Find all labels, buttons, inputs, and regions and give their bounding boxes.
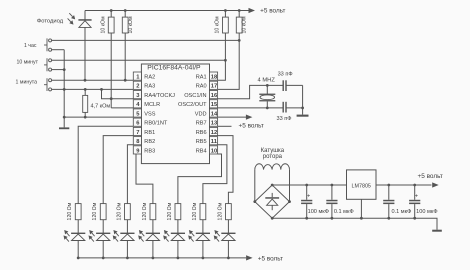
capacitor C4 0.1 мкФ: [331, 185, 333, 200]
LED HL7: [227, 220, 229, 233]
wire: DC- rail to ground: [272, 218, 437, 230]
svg-text:MCLR: MCLR: [144, 102, 160, 108]
wire: SB1 top contact to R4 junction: [52, 39, 240, 41]
ground (left): [63, 117, 65, 127]
svg-text:10 кОм: 10 кОм: [100, 16, 106, 34]
svg-text:4,7 кОм: 4,7 кОм: [91, 104, 111, 110]
wire: pin 14 VDD to +5: [218, 116, 246, 118]
svg-text:RA3: RA3: [144, 84, 155, 90]
svg-text:+5 вольт: +5 вольт: [239, 122, 264, 129]
LED HL6: [202, 220, 204, 233]
wire: pin 10 RB4 to LED column 5: [178, 154, 222, 204]
pin 3 RA4/TOCKJ: [133, 91, 141, 99]
svg-text:RB0/1NT: RB0/1NT: [144, 121, 168, 127]
wire: coil left lead to bridge: [254, 170, 256, 202]
resistor R12 120 Ом: [226, 204, 232, 220]
pin 1 RA2: [133, 72, 141, 80]
power +5 вольт (VDD arrow): [246, 115, 253, 120]
svg-text:RA0: RA0: [196, 84, 207, 90]
svg-text:RB4: RB4: [196, 148, 207, 154]
pin 4 MCLR: [133, 100, 141, 108]
capacitor C3 100 мкФ: [306, 185, 308, 200]
svg-text:RB6: RB6: [196, 130, 207, 136]
wire: LM7805 ground lead: [360, 199, 362, 218]
svg-text:RB3: RB3: [144, 148, 155, 154]
svg-text:15: 15: [211, 102, 218, 108]
pin 14 VDD: [210, 109, 218, 117]
resistor R7 120 Ом: [100, 204, 106, 220]
bridge rectifier VD2: [255, 185, 290, 218]
wire: SB2 bottom contact stub: [52, 69, 65, 71]
resistor R2 10 кОм: [124, 11, 126, 18]
wire: R5 bottom to VSS line: [84, 112, 86, 117]
wire: pin 7 RB1 to LED column 2: [103, 136, 133, 204]
wire: R1 bottom to RA4/MCLR net: [110, 33, 112, 108]
pin 15 OSC2/OUT: [210, 100, 218, 108]
svg-text:RB7: RB7: [196, 121, 207, 127]
svg-text:100 мкФ: 100 мкФ: [308, 209, 329, 215]
svg-text:VSS: VSS: [144, 111, 155, 117]
svg-text:18: 18: [211, 75, 218, 81]
resistor R9 120 Ом: [150, 204, 156, 220]
svg-text:RA2: RA2: [144, 75, 155, 81]
svg-text:12: 12: [211, 130, 217, 136]
diode inside bridge: [271, 193, 273, 197]
resistor R1 10 кОм: [110, 11, 112, 18]
svg-text:+5 вольт: +5 вольт: [418, 173, 443, 180]
svg-text:120 Ом: 120 Ом: [92, 202, 98, 220]
wire: pin 15 OSC2 bottom line: [218, 107, 284, 109]
wire: LED HL6 to +5 rail: [202, 241, 204, 258]
LED HL2: [102, 220, 104, 233]
svg-text:+5 вольт: +5 вольт: [260, 8, 285, 15]
pin 11 RB5: [210, 137, 218, 145]
svg-text:RB1: RB1: [144, 130, 155, 136]
wire: pin 9 RB3 to LED column 4: [136, 154, 153, 204]
svg-text:0.1 мкФ: 0.1 мкФ: [334, 209, 354, 215]
svg-text:33 пФ: 33 пФ: [278, 72, 293, 78]
wire: SB3 top contact to pin 1 RA2 line: [52, 79, 134, 81]
pin 9 RB3: [133, 146, 141, 154]
wire: LED HL3 to +5 rail: [126, 241, 128, 258]
wire: R3 bottom to pin 18: [218, 33, 226, 80]
wire: +5V top rail: [85, 10, 249, 12]
svg-text:0.1 мкФ: 0.1 мкФ: [391, 209, 411, 215]
capacitor C5 0.1 мкФ: [388, 185, 390, 200]
wire: pin 16 OSC1 to crystal top line: [218, 85, 284, 98]
wire: R4 bottom to pin 17: [218, 33, 240, 89]
pin 17 RA0: [210, 81, 218, 89]
pin 7 RB1: [133, 127, 141, 135]
svg-text:14: 14: [211, 111, 218, 117]
svg-text:7: 7: [136, 130, 139, 136]
LED HL3: [126, 220, 128, 233]
wire: LED HL5 to +5 rail: [177, 241, 179, 258]
resistor R5 4,7 кОм: [84, 89, 86, 95]
capacitor C6 100 мкФ: [414, 185, 416, 200]
resistor R3 10 кОм: [224, 11, 226, 18]
svg-text:2: 2: [136, 84, 139, 90]
wire: switch common vertical to ground: [63, 50, 65, 117]
pin 13 RB7: [210, 118, 218, 126]
svg-text:10: 10: [211, 148, 217, 154]
svg-text:100 мкФ: 100 мкФ: [416, 209, 437, 215]
wire: branch to pin 4 MCLR: [110, 97, 113, 100]
LED HL1: [77, 220, 79, 233]
resistor R8 120 Ом: [125, 204, 131, 220]
svg-text:120 Ом: 120 Ом: [192, 202, 198, 220]
svg-text:11: 11: [211, 139, 218, 145]
power +5 вольт (bottom arrow): [246, 255, 253, 260]
wire: +5V LED bottom rail: [78, 257, 246, 259]
svg-text:LM7805: LM7805: [351, 183, 370, 189]
pin 8 RB2: [133, 137, 141, 145]
wire: LED HL2 to +5 rail: [102, 241, 104, 258]
svg-text:OSC2/OUT: OSC2/OUT: [178, 102, 207, 108]
resistor R4 10 кОм: [238, 11, 240, 18]
voltage regulator U2 LM7805: [347, 170, 377, 199]
wire: SB3 bottom contact to pin 2 line: [52, 88, 134, 90]
svg-text:120 Ом: 120 Ом: [67, 202, 73, 220]
resistor R11 120 Ом: [200, 204, 206, 220]
svg-text:17: 17: [211, 84, 217, 90]
photodiode VD1 Фотодиод: [84, 11, 86, 20]
svg-text:RA1: RA1: [196, 75, 207, 81]
wire: pin 8 RB2 to LED column 3: [127, 145, 133, 204]
svg-text:120 Ом: 120 Ом: [142, 202, 148, 220]
svg-text:120 Ом: 120 Ом: [217, 202, 223, 220]
power +5 вольт (top right arrow): [249, 8, 256, 13]
pin 5 VSS: [133, 109, 141, 117]
svg-text:10 минут: 10 минут: [16, 60, 38, 66]
wire: pin 6 RB0 to LED column 1: [78, 126, 133, 203]
wire: SB2 top contact to R3 junction: [52, 59, 226, 61]
svg-text:+: +: [415, 194, 418, 200]
svg-text:120 Ом: 120 Ом: [116, 202, 122, 220]
svg-text:OSC1/IN: OSC1/IN: [184, 93, 206, 99]
wire: SB1 bottom contact stub: [52, 49, 65, 51]
svg-text:ротора: ротора: [263, 154, 283, 160]
power +5 вольт (PSU output arrow): [432, 182, 439, 187]
LED HL5: [177, 220, 179, 233]
svg-text:PIC16F84A-04I/P: PIC16F84A-04I/P: [147, 64, 201, 71]
svg-text:10 кОм: 10 кОм: [241, 16, 247, 34]
svg-text:16: 16: [211, 93, 218, 99]
wire: pin 12 RB6 to LED column 7: [218, 136, 233, 204]
svg-text:1 минута: 1 минута: [16, 79, 38, 85]
ground (PSU): [432, 230, 442, 232]
wire: pin 11 RB5 to LED column 6: [203, 145, 227, 204]
pin 2 RA3: [133, 81, 141, 89]
capacitor C2 33 пФ: [283, 102, 284, 113]
wire: coil right lead to bridge: [289, 170, 291, 202]
LED HL4: [152, 220, 154, 233]
wire: LED HL4 to +5 rail: [152, 241, 154, 258]
svg-text:10 кОм: 10 кОм: [128, 16, 134, 34]
pin 18 RA1: [210, 72, 218, 80]
IC U1 PIC16F84A-04I/P: [141, 64, 209, 164]
wire: staircase to pin 3 RA4: [102, 89, 134, 98]
ground (crystal): [297, 115, 309, 117]
wire: VSS line to pin 5: [64, 116, 133, 118]
svg-text:10 кОм: 10 кОм: [214, 16, 220, 34]
pin 10 RB4: [210, 146, 218, 154]
svg-text:VDD: VDD: [195, 111, 207, 117]
pin 6 RB0/1NT: [133, 118, 141, 126]
svg-text:1 час: 1 час: [24, 43, 37, 49]
svg-text:+5 вольт: +5 вольт: [258, 255, 283, 262]
resistor R6 120 Ом: [75, 204, 81, 220]
svg-text:Катушка: Катушка: [261, 148, 285, 154]
svg-text:Фотодиод: Фотодиод: [37, 19, 64, 25]
svg-text:120 Ом: 120 Ом: [167, 202, 173, 220]
pin 12 RB6: [210, 127, 218, 135]
wire: LED HL7 to +5 rail: [227, 241, 229, 258]
svg-text:RB5: RB5: [196, 139, 207, 145]
resistor R10 120 Ом: [175, 204, 181, 220]
svg-text:RB2: RB2: [144, 139, 155, 145]
crystal ZQ1 4 MHZ: [266, 85, 268, 94]
wire: pin 13 RB7 stub: [218, 125, 232, 127]
wire: R2 bottom to RA2 line: [124, 33, 126, 80]
wire: LED HL1 to +5 rail: [77, 241, 79, 258]
wire: right vertical to crystal ground: [302, 85, 304, 114]
svg-text:4 MHZ: 4 MHZ: [257, 77, 275, 83]
pin 16 OSC1/IN: [210, 91, 218, 99]
svg-text:33 пФ: 33 пФ: [276, 116, 291, 122]
svg-text:+: +: [307, 193, 310, 199]
wire: DC+ rail: [272, 184, 346, 186]
svg-text:RA4/TOCKJ: RA4/TOCKJ: [144, 93, 175, 99]
svg-text:13: 13: [211, 121, 218, 127]
capacitor C1 33 пФ: [283, 80, 284, 91]
